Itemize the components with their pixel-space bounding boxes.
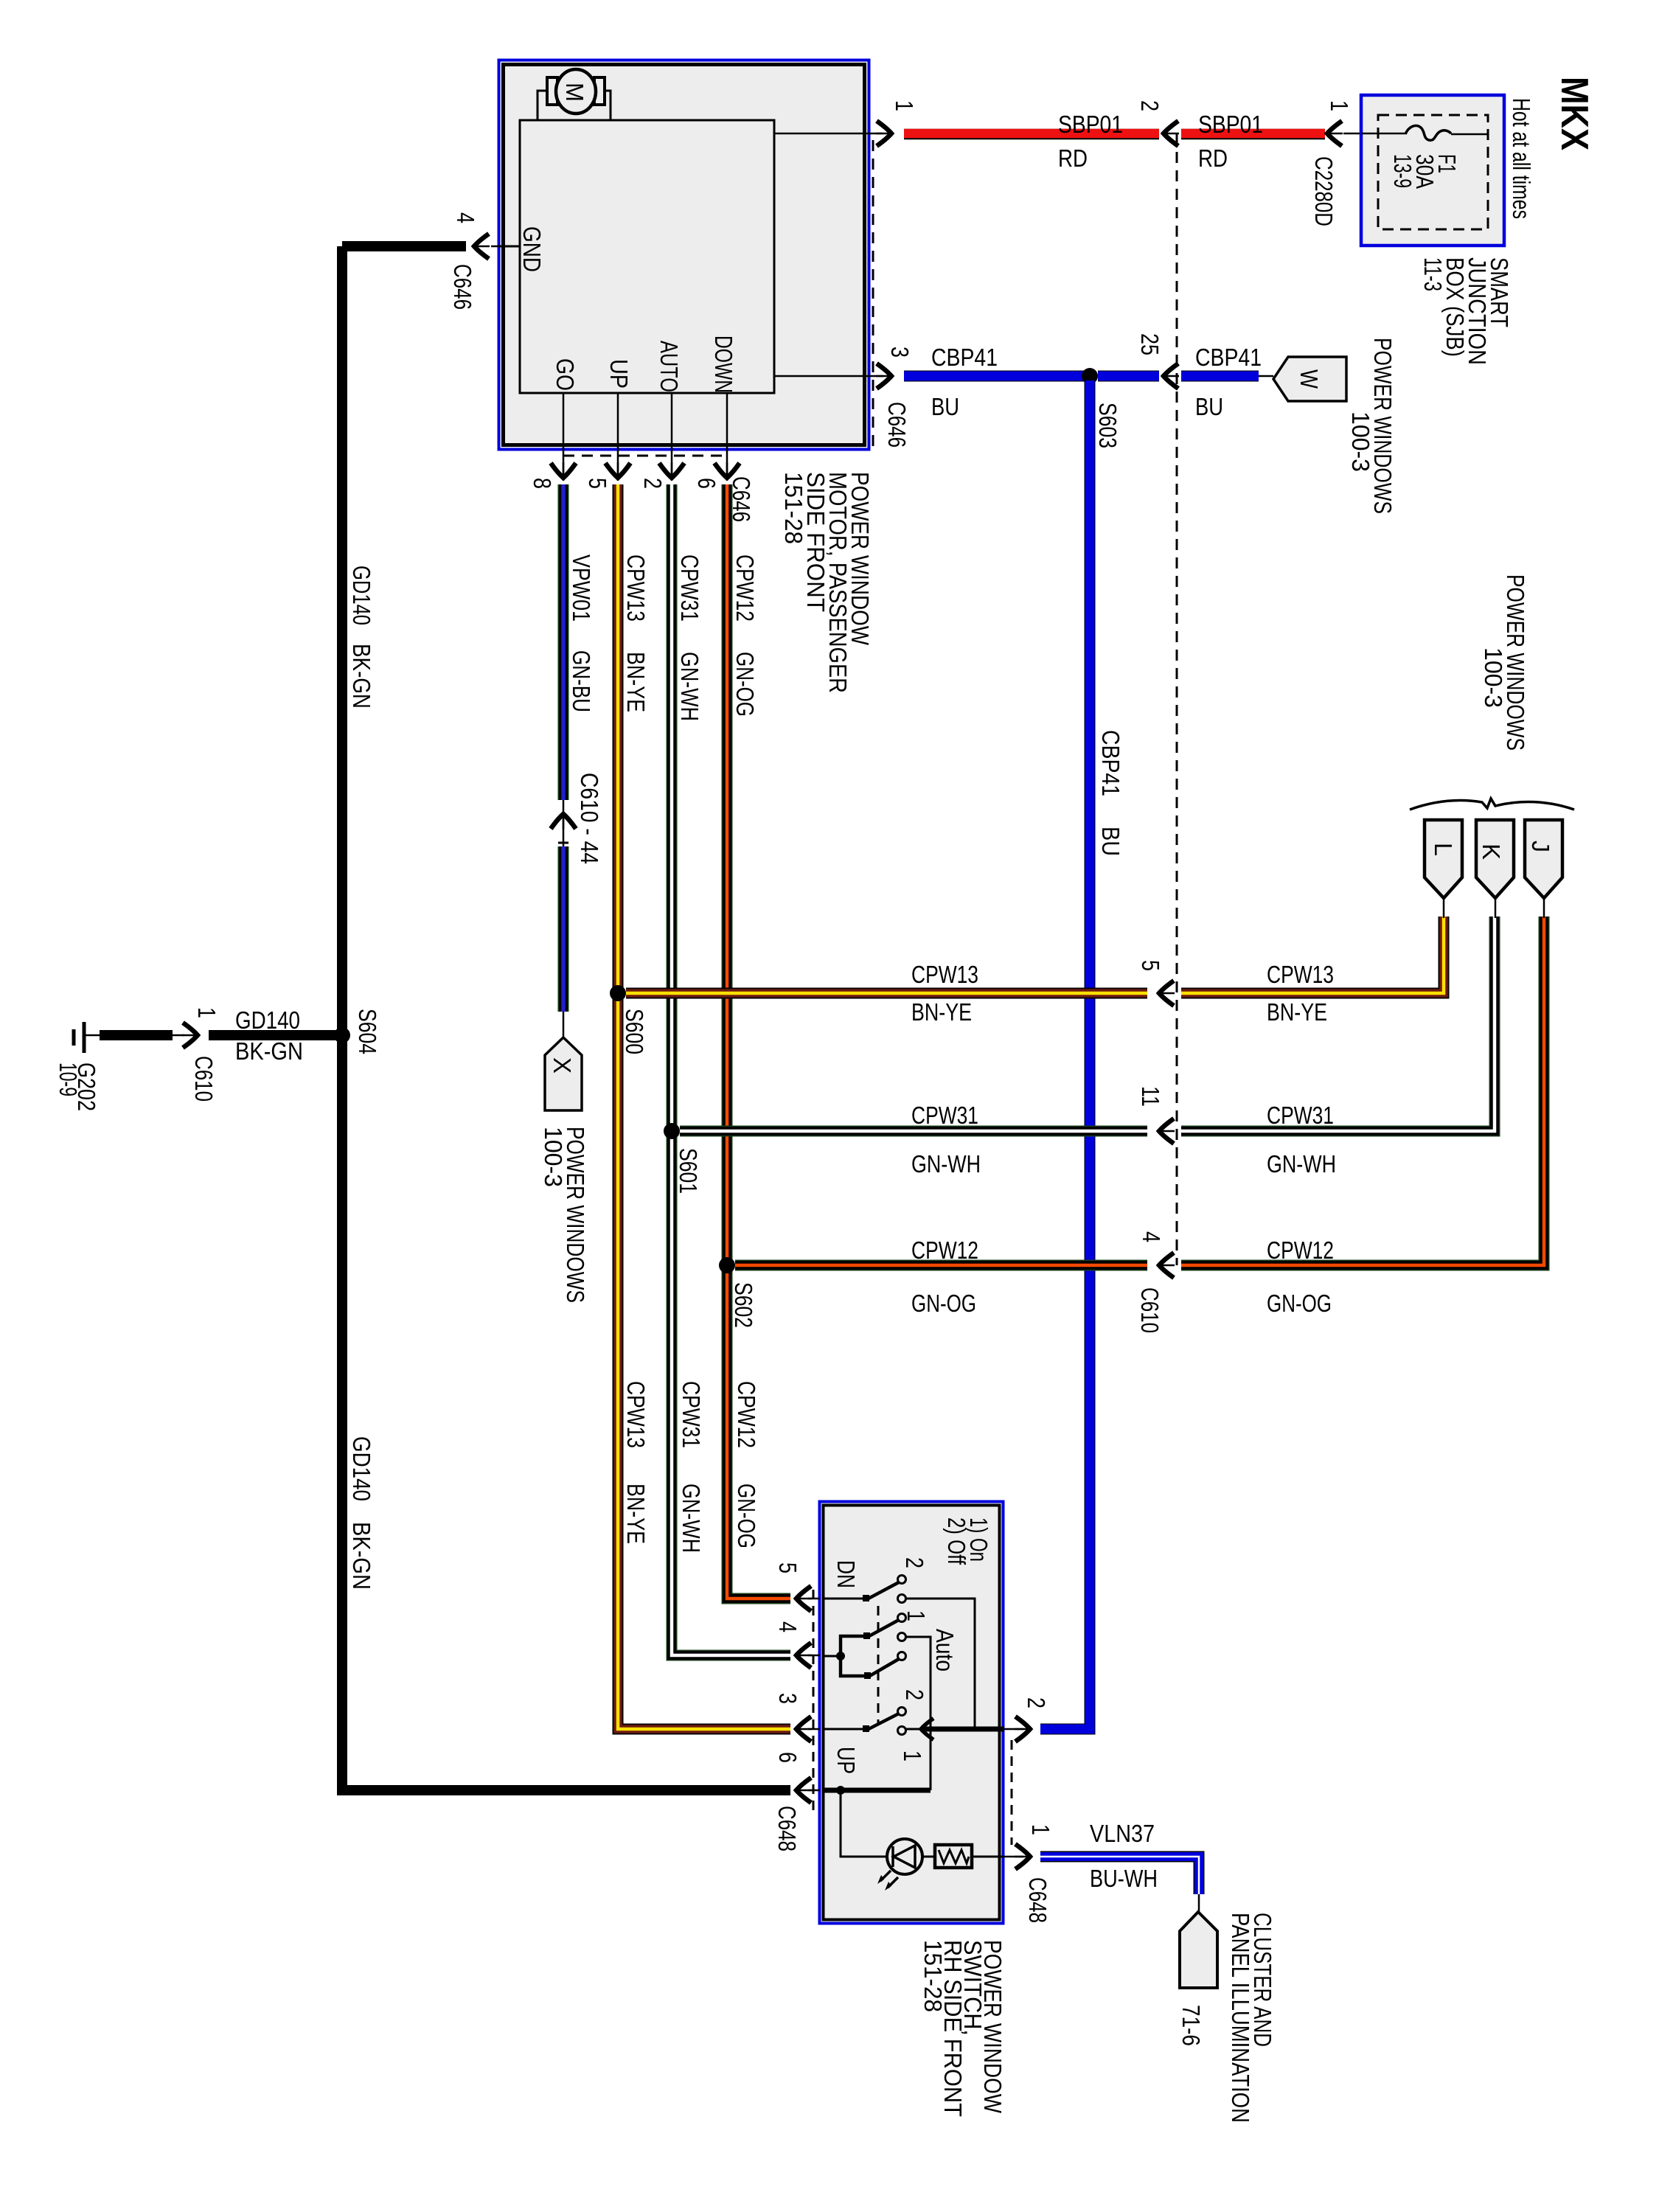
arrow motor pin 8 bbox=[551, 462, 576, 479]
svg-text:2) Off: 2) Off bbox=[943, 1517, 970, 1565]
wire CPW13 BN-YE vertical bbox=[618, 484, 790, 1729]
svg-text:100-3: 100-3 bbox=[540, 1127, 567, 1187]
svg-text:SBP01: SBP01 bbox=[1198, 111, 1263, 138]
svg-text:5: 5 bbox=[774, 1562, 801, 1573]
wire GND row internal bbox=[824, 1788, 931, 1793]
svg-text:BK-GN: BK-GN bbox=[348, 1522, 375, 1590]
arrow motor pin 2 bbox=[659, 462, 684, 479]
svg-text:BN-YE: BN-YE bbox=[622, 1484, 650, 1544]
svg-text:VPW01: VPW01 bbox=[568, 554, 595, 622]
wire to X connector bbox=[563, 1012, 565, 1037]
pin 3 arrow (motor) bbox=[876, 364, 893, 389]
svg-text:C646: C646 bbox=[883, 402, 911, 448]
switch Auto arm lower bbox=[867, 1659, 899, 1677]
resistor (illumination) bbox=[935, 1845, 972, 1868]
svg-text:BK-GN: BK-GN bbox=[348, 644, 375, 709]
wire SBP01 RD right bbox=[1181, 129, 1325, 140]
splice S600 bbox=[610, 985, 626, 1001]
svg-text:151-28: 151-28 bbox=[919, 1940, 947, 2012]
wire Auto contact to ground node bbox=[906, 1637, 931, 1790]
dashed boundary C2280D/C610 main bbox=[1176, 133, 1178, 1265]
svg-text:25: 25 bbox=[1136, 333, 1164, 355]
svg-text:CPW31: CPW31 bbox=[1267, 1102, 1334, 1129]
wire K flag lead bbox=[1495, 898, 1497, 918]
wire VPW01 GN-BU upper bbox=[558, 484, 569, 800]
svg-text:GND: GND bbox=[518, 226, 546, 272]
connector W flag bbox=[1273, 357, 1346, 401]
svg-text:C610 - 44: C610 - 44 bbox=[576, 773, 603, 864]
svg-text:BN-YE: BN-YE bbox=[1267, 998, 1327, 1026]
svg-text:CBP41: CBP41 bbox=[1195, 344, 1262, 371]
wire CBP41 BU vertical bbox=[1040, 380, 1090, 1729]
svg-text:S602: S602 bbox=[730, 1282, 757, 1328]
svg-text:10-9: 10-9 bbox=[55, 1062, 82, 1096]
svg-text:BU: BU bbox=[931, 393, 959, 420]
svg-text:L: L bbox=[1430, 843, 1457, 856]
svg-text:4: 4 bbox=[452, 212, 479, 223]
wire motor pin 8 drop bbox=[563, 393, 565, 481]
arrow UP output bbox=[906, 1728, 923, 1731]
svg-text:CPW13: CPW13 bbox=[1267, 961, 1334, 988]
arrow CPW31 at C610 bbox=[1158, 1119, 1175, 1144]
svg-text:151-28: 151-28 bbox=[780, 472, 807, 544]
wire J flag lead bbox=[1543, 898, 1545, 918]
wire motor pin 6 drop bbox=[726, 393, 728, 481]
svg-text:CPW31: CPW31 bbox=[911, 1102, 978, 1129]
svg-text:1: 1 bbox=[1326, 100, 1353, 111]
svg-text:AUTO: AUTO bbox=[655, 341, 683, 392]
svg-text:13-9: 13-9 bbox=[1389, 154, 1416, 188]
svg-text:5: 5 bbox=[584, 478, 611, 489]
arrow SBP01 at C2280D bbox=[1162, 121, 1179, 146]
svg-text:DN: DN bbox=[832, 1560, 860, 1588]
switch Auto arm upper bbox=[866, 1620, 899, 1638]
svg-text:MKX: MKX bbox=[1553, 77, 1596, 150]
switch ganged link dashed bbox=[877, 1606, 880, 1724]
svg-text:K: K bbox=[1478, 844, 1505, 860]
svg-text:CBP41: CBP41 bbox=[1097, 730, 1124, 796]
svg-text:SBP01: SBP01 bbox=[1058, 111, 1123, 138]
switch UP arm bbox=[866, 1714, 899, 1731]
svg-text:GN-OG: GN-OG bbox=[1267, 1290, 1332, 1317]
wire SBP01 RD left bbox=[904, 129, 1159, 140]
svg-text:CPW13: CPW13 bbox=[622, 554, 650, 622]
switch DN contact lower bbox=[898, 1595, 906, 1603]
svg-text:11-3: 11-3 bbox=[1419, 257, 1447, 291]
svg-text:GD140: GD140 bbox=[348, 566, 375, 625]
svg-text:BU: BU bbox=[1195, 393, 1223, 420]
arrow CPW12 at C610 bbox=[1158, 1253, 1175, 1278]
switch DN arm bbox=[866, 1582, 899, 1600]
svg-text:1: 1 bbox=[1027, 1824, 1054, 1835]
svg-text:6: 6 bbox=[693, 478, 720, 489]
svg-text:GN-OG: GN-OG bbox=[731, 652, 759, 717]
svg-text:CPW31: CPW31 bbox=[678, 1381, 705, 1448]
wire motor pin 2 drop bbox=[671, 393, 673, 481]
dashed boundary C646 (below motor box) bbox=[563, 455, 728, 457]
svg-text:3: 3 bbox=[774, 1693, 801, 1704]
wire pin4 row internal bbox=[824, 1655, 841, 1658]
splice S602 bbox=[719, 1257, 735, 1273]
arrow switch pin 6 bbox=[795, 1778, 812, 1803]
wire BK GND segment bbox=[342, 241, 466, 251]
svg-text:2: 2 bbox=[901, 1689, 928, 1700]
inline connector C610-44 bbox=[563, 800, 565, 846]
lamp branch junction bbox=[836, 1786, 845, 1795]
wire pin3 from module bbox=[774, 375, 871, 378]
connector 71-6 flag bbox=[1180, 1912, 1217, 1988]
wire pin1 from module bbox=[774, 133, 871, 135]
arrow motor pin 6 bbox=[714, 462, 740, 479]
svg-text:100-3: 100-3 bbox=[1480, 647, 1507, 708]
wire resistor to pin1 bbox=[972, 1856, 1004, 1858]
dashed boundary C648 (right) bbox=[1011, 1740, 1013, 1845]
svg-text:CPW13: CPW13 bbox=[911, 961, 978, 988]
svg-text:RD: RD bbox=[1198, 145, 1228, 172]
arrow CBP41 at C-junction bbox=[1162, 364, 1179, 389]
svg-text:J: J bbox=[1527, 841, 1554, 852]
wire to W connector bbox=[1259, 375, 1273, 378]
svg-text:6: 6 bbox=[774, 1752, 801, 1763]
svg-text:2: 2 bbox=[1136, 100, 1164, 111]
connector K flag bbox=[1476, 820, 1514, 898]
connector L flag bbox=[1425, 820, 1462, 898]
smart junction box outline bbox=[1361, 95, 1504, 246]
wire GND from module bbox=[498, 246, 520, 248]
svg-text:Auto: Auto bbox=[931, 1629, 959, 1672]
svg-text:BU: BU bbox=[1097, 827, 1124, 856]
arrow CPW13 at C610 bbox=[1158, 981, 1175, 1006]
switch Auto contact mid bbox=[898, 1633, 906, 1641]
switch Auto contact lower bbox=[898, 1652, 906, 1660]
wire CPW13 BN-YE row left bbox=[626, 988, 1147, 999]
wire BK ground segment bbox=[100, 1030, 173, 1040]
svg-text:S603: S603 bbox=[1094, 403, 1121, 448]
svg-text:W: W bbox=[1295, 369, 1323, 389]
svg-text:CPW12: CPW12 bbox=[911, 1237, 978, 1264]
svg-text:VLN37: VLN37 bbox=[1090, 1820, 1155, 1847]
svg-text:11: 11 bbox=[1137, 1086, 1164, 1107]
wire UP row internal bbox=[824, 1728, 867, 1731]
svg-text:CPW12: CPW12 bbox=[733, 1381, 760, 1448]
wire VLN37 BU-WH bbox=[1040, 1857, 1199, 1894]
svg-text:C646: C646 bbox=[449, 264, 476, 310]
svg-text:C610: C610 bbox=[1136, 1287, 1164, 1333]
svg-text:2: 2 bbox=[639, 478, 667, 489]
connector X flag bbox=[545, 1037, 582, 1110]
wire DN row internal bbox=[824, 1598, 867, 1600]
wire GD140 BK-GN vertical bbox=[342, 246, 790, 1790]
svg-text:1: 1 bbox=[891, 100, 918, 111]
splice S604 bbox=[334, 1027, 350, 1043]
switch UP contact 1 bbox=[898, 1727, 906, 1735]
svg-text:Hot at all times: Hot at all times bbox=[1508, 98, 1535, 219]
svg-text:UP: UP bbox=[605, 359, 633, 389]
svg-text:GD140: GD140 bbox=[235, 1006, 300, 1034]
svg-text:CBP41: CBP41 bbox=[931, 344, 998, 371]
arrow switch pin 5 bbox=[795, 1586, 812, 1611]
switch Auto contact upper bbox=[898, 1614, 906, 1622]
arrow switch pin 3 bbox=[795, 1717, 812, 1742]
dashed boundary C646 (right of motor box) bbox=[872, 140, 874, 450]
svg-text:BK-GN: BK-GN bbox=[235, 1037, 303, 1065]
wire lamp to resistor bbox=[922, 1856, 935, 1858]
svg-text:2: 2 bbox=[901, 1557, 928, 1568]
wire CPW31 GN-WH row right bbox=[1181, 917, 1495, 1131]
svg-text:BN-YE: BN-YE bbox=[911, 998, 972, 1026]
wire motor left lead bbox=[538, 91, 547, 120]
wire CBP41 BU right bbox=[1181, 371, 1259, 382]
svg-text:BN-YE: BN-YE bbox=[622, 652, 650, 712]
wire Auto bracket bbox=[841, 1636, 868, 1676]
pin 1 arrow (motor) bbox=[876, 121, 893, 146]
svg-text:1: 1 bbox=[899, 1750, 926, 1761]
svg-text:UP: UP bbox=[832, 1747, 860, 1774]
svg-text:GD140: GD140 bbox=[348, 1436, 375, 1501]
SJB dashed inner boundary bbox=[1378, 115, 1488, 229]
svg-text:GO: GO bbox=[552, 358, 579, 391]
arrow motor pin 5 bbox=[605, 462, 630, 479]
fuse F1 symbol bbox=[1361, 133, 1405, 135]
switch UP contact 2 bbox=[898, 1708, 906, 1716]
svg-text:GN-WH: GN-WH bbox=[1267, 1150, 1336, 1178]
arrow switch pin 4 bbox=[795, 1643, 812, 1668]
svg-text:CPW12: CPW12 bbox=[1267, 1237, 1334, 1264]
svg-text:C648: C648 bbox=[773, 1806, 801, 1851]
svg-text:DOWN: DOWN bbox=[710, 335, 737, 393]
svg-text:BU-WH: BU-WH bbox=[1090, 1865, 1158, 1892]
svg-text:RD: RD bbox=[1058, 145, 1088, 172]
svg-text:M: M bbox=[561, 83, 588, 102]
svg-text:100-3: 100-3 bbox=[1347, 411, 1374, 472]
svg-text:4: 4 bbox=[774, 1621, 801, 1632]
svg-text:GN-OG: GN-OG bbox=[911, 1290, 976, 1317]
dashed boundary C648 (left) bbox=[813, 1590, 815, 1815]
arrow C610 ground bbox=[173, 1034, 184, 1037]
wire motor right lead bbox=[605, 91, 611, 120]
power window motor box outline bbox=[499, 60, 869, 450]
wire CPW31 GN-WH vertical bbox=[672, 484, 790, 1655]
connector brace bbox=[1410, 799, 1574, 810]
wire into fuse bbox=[1343, 133, 1405, 135]
pin 1 arrow (VLN37) bbox=[1004, 1856, 1023, 1858]
power window switch box outline bbox=[820, 1502, 1004, 1924]
illumination lamp bbox=[887, 1839, 922, 1874]
motor M1 symbol bbox=[547, 77, 557, 105]
wire GD140 BK-GN to S604 bbox=[209, 1030, 338, 1040]
svg-text:CPW31: CPW31 bbox=[676, 554, 703, 622]
svg-text:5: 5 bbox=[1137, 960, 1164, 971]
svg-text:GN-WH: GN-WH bbox=[676, 652, 703, 721]
ground G202 symbol bbox=[83, 1022, 86, 1053]
wire CBP41 BU mid bbox=[1098, 371, 1159, 382]
svg-text:3: 3 bbox=[886, 347, 914, 358]
svg-text:CPW12: CPW12 bbox=[731, 554, 759, 622]
wire lamp branch bbox=[841, 1790, 887, 1857]
svg-text:S604: S604 bbox=[354, 1009, 381, 1054]
svg-text:1: 1 bbox=[193, 1007, 220, 1018]
connector J flag bbox=[1525, 820, 1562, 898]
wire CPW12 GN-OG row left bbox=[735, 1260, 1147, 1271]
wire VPW01 GN-BU lower bbox=[558, 846, 569, 1012]
wire CPW12 GN-OG row right bbox=[1181, 917, 1544, 1265]
wire DN contact to output node bbox=[906, 1599, 975, 1729]
svg-text:C2280D: C2280D bbox=[1310, 156, 1338, 226]
svg-text:GN-BU: GN-BU bbox=[568, 650, 595, 712]
svg-text:8: 8 bbox=[529, 478, 556, 489]
svg-text:GN-WH: GN-WH bbox=[678, 1484, 705, 1553]
wire UP output node bbox=[923, 1727, 1004, 1732]
svg-text:PANEL ILLUMINATION: PANEL ILLUMINATION bbox=[1227, 1913, 1254, 2123]
svg-text:71-6: 71-6 bbox=[1178, 2005, 1205, 2046]
pin 2 arrow (switch out) bbox=[1015, 1717, 1032, 1742]
wire CPW12 GN-OG vertical bbox=[727, 484, 790, 1599]
svg-text:CPW13: CPW13 bbox=[622, 1381, 650, 1448]
wire motor pin 5 drop bbox=[617, 393, 619, 481]
wire CPW31 GN-WH row left bbox=[680, 1126, 1147, 1137]
motor module inner box bbox=[520, 120, 774, 393]
wire CPW13 BN-YE row right bbox=[1181, 917, 1444, 993]
svg-text:2: 2 bbox=[1023, 1697, 1050, 1708]
arrow into SJB bbox=[1326, 121, 1343, 146]
svg-text:GN-OG: GN-OG bbox=[733, 1484, 760, 1548]
switch DN contact 2 bbox=[898, 1576, 906, 1584]
svg-text:X: X bbox=[549, 1057, 576, 1074]
wire to 71-6 flag bbox=[1198, 1894, 1200, 1913]
svg-text:1: 1 bbox=[902, 1610, 930, 1621]
wire CBP41 BU left bbox=[904, 371, 1084, 382]
splice S603 bbox=[1082, 368, 1098, 384]
svg-text:4: 4 bbox=[1138, 1231, 1165, 1242]
pin 4 arrow bbox=[491, 246, 498, 248]
svg-text:GN-WH: GN-WH bbox=[911, 1150, 981, 1178]
svg-text:S600: S600 bbox=[621, 1009, 648, 1054]
svg-text:S601: S601 bbox=[675, 1148, 702, 1194]
wire L flag lead bbox=[1443, 898, 1445, 918]
splice S601 bbox=[664, 1123, 680, 1139]
svg-text:C610: C610 bbox=[190, 1056, 218, 1102]
svg-text:C648: C648 bbox=[1024, 1877, 1051, 1923]
